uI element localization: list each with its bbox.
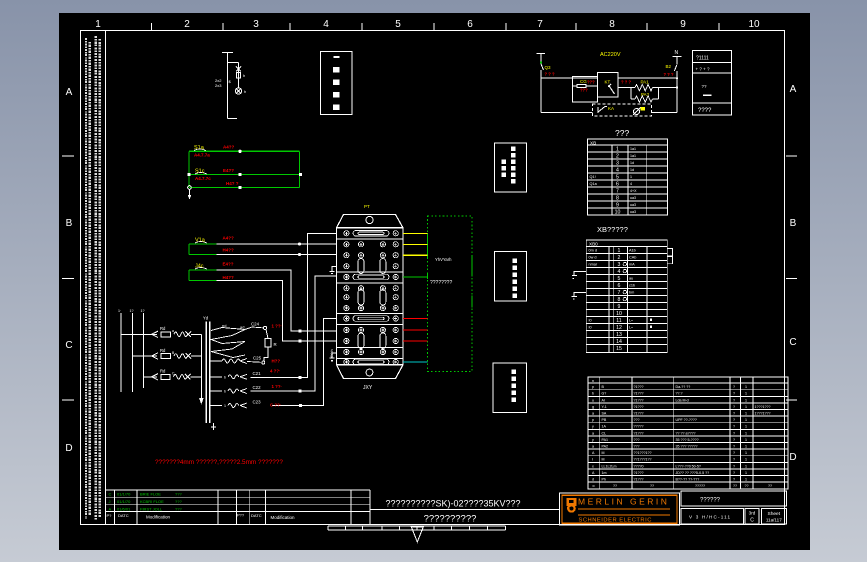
svg-text:??: ?? (650, 484, 654, 488)
svg-text:??????????: ?????????? (424, 514, 477, 525)
svg-text:1: 1 (745, 431, 747, 435)
svg-text:3: 3 (616, 161, 619, 167)
svg-text:CL: CL (602, 431, 607, 435)
bus labels (118, 309, 145, 313)
svg-text:?1???: ?1??? (634, 478, 644, 482)
row boundary ticks (62, 155, 74, 157)
ground symbol (574, 292, 586, 296)
svg-text:5: 5 (618, 276, 621, 282)
wire riser C23 to row (272, 319, 337, 406)
note box (primary diagram ref) (321, 52, 353, 115)
svg-text:H4? ?: H4? ? (226, 181, 239, 186)
terminal block JXY body (337, 228, 404, 365)
svg-text:Da-?? ??: Da-?? ?? (676, 385, 691, 389)
svg-text:1: 1 (745, 478, 747, 482)
svg-text:35 ??? 5-????: 35 ??? 5-???? (676, 438, 699, 442)
svg-text:∞: ∞ (592, 484, 595, 488)
ground symbol (574, 272, 586, 276)
right link (658, 78, 677, 112)
svg-text:???: ??? (175, 506, 182, 511)
svg-text:I: I (592, 458, 593, 462)
terminal arrow (188, 186, 192, 200)
svg-text:???: ??? (634, 445, 640, 449)
svg-text:BRIE FLOE: BRIE FLOE (140, 492, 161, 497)
svg-text:Rd: Rd (160, 369, 166, 374)
rev box (745, 509, 759, 524)
svg-text:H4??: H4?? (223, 275, 235, 280)
svg-text:DATC: DATC (251, 513, 262, 518)
green tick (540, 62, 542, 64)
svg-text:4 ??·: 4 ??· (270, 369, 281, 374)
svg-text:A4.7.7c: A4.7.7c (195, 176, 211, 181)
svg-text:1: 1 (745, 438, 747, 442)
code box (681, 509, 743, 524)
svg-text:?: ? (733, 445, 735, 449)
svg-text:C: C (789, 337, 796, 348)
svg-text:?1???: ?1??? (634, 412, 644, 416)
svg-text:ua3: ua3 (630, 210, 636, 214)
svg-text:15: 15 (616, 346, 622, 352)
svg-text:FIRST JOLL: FIRST JOLL (140, 506, 163, 511)
svg-text:PT: PT (364, 204, 370, 209)
svg-text:I0: I0 (589, 325, 592, 329)
svg-text:7: 7 (537, 19, 543, 30)
svg-text:01/1/70: 01/1/70 (117, 499, 131, 504)
primary winding zigzag (211, 328, 245, 358)
svg-text:6: 6 (618, 283, 621, 289)
svg-text:3: 3 (253, 19, 259, 30)
svg-text:1: 1 (745, 425, 747, 429)
svg-text:1·: 1· (118, 309, 121, 313)
bottom cap (337, 365, 404, 379)
junction nodes (188, 150, 303, 190)
svg-text:1d: 1d (630, 161, 634, 165)
svg-text:1A: 1A (602, 425, 607, 429)
svg-text:01/6/01: 01/6/01 (117, 506, 131, 511)
svg-text:L=: L= (629, 319, 633, 323)
divider lines (337, 239, 404, 359)
svg-text:??1???1??: ??1???1?? (634, 451, 652, 455)
svg-text:1: 1 (616, 147, 619, 153)
top cap (337, 215, 404, 228)
wire red 1 (403, 318, 428, 320)
tap C25 (210, 359, 265, 365)
svg-text:1: 1 (745, 471, 747, 475)
svg-text:C22: C22 (253, 385, 262, 390)
svg-text:g: g (592, 405, 594, 409)
svg-text:??: ?? (745, 484, 749, 488)
title box (370, 509, 560, 511)
svg-text:?: ? (733, 398, 735, 402)
svg-text:???: ??? (634, 438, 640, 442)
svg-text:2x3: 2x3 (215, 83, 222, 88)
svg-text:??.?: ??.? (676, 392, 683, 396)
svg-text:PA2: PA2 (602, 445, 609, 449)
svg-text:6: 6 (616, 182, 619, 188)
svg-text:???: ??? (634, 418, 640, 422)
svg-text:Yd: Yd (203, 316, 209, 321)
svg-text:x: x (592, 464, 594, 468)
wire (217, 254, 337, 256)
svg-text:??1???1??: ??1???1?? (634, 458, 652, 462)
svg-text:10: 10 (748, 19, 760, 30)
svg-text:au: au (629, 277, 633, 281)
switch Q3 (541, 64, 544, 113)
svg-text:N: N (675, 50, 679, 56)
svg-text:1: 1 (745, 412, 747, 416)
svg-text:u: u (592, 398, 594, 402)
svg-text:c1b: c1b (629, 284, 635, 288)
svg-text:KA: KA (608, 106, 614, 111)
wire yellow 2 (403, 243, 428, 245)
svg-text:YhVYarh: YhVYarh (435, 257, 452, 262)
wire J4c lower (217, 281, 337, 342)
svg-text:d: d (592, 478, 594, 482)
svg-text:ad: ad (240, 325, 244, 330)
note box (493, 363, 527, 412)
disconnect switch QS (236, 67, 241, 72)
sheet box (761, 509, 786, 524)
svg-text:?1???: ?1??? (634, 392, 644, 396)
svg-text:ua3: ua3 (630, 203, 636, 207)
yellow block (641, 107, 646, 111)
ground tap at connector left (330, 266, 337, 273)
wire red 2 (403, 329, 428, 331)
svg-text:a: a (592, 412, 594, 416)
svg-text:????: ???? (698, 108, 712, 114)
svg-text:? ? ?: ? ? ? (664, 72, 674, 77)
svg-text:Rd: Rd (160, 326, 166, 331)
svg-text:?: ? (733, 431, 735, 435)
svg-text:1 ??·: 1 ??· (272, 324, 283, 329)
svg-text:1: 1 (745, 445, 747, 449)
node J4c green link (189, 270, 217, 281)
wire cyan (403, 361, 428, 363)
svg-text:a: a (172, 329, 174, 333)
svg-text:E4??: E4?? (223, 262, 234, 267)
svg-text:?????: ????? (695, 484, 705, 488)
ruler tick marks (151, 23, 153, 31)
svg-text:?: ? (733, 405, 735, 409)
svg-text:9: 9 (616, 203, 619, 209)
svg-text:A4??: A4?? (223, 236, 235, 241)
svg-text:??: ?? (733, 484, 737, 488)
svg-text:1: 1 (745, 418, 747, 422)
notes text column (vertical chinese notes) (86, 36, 100, 520)
svg-text:nmar: nmar (589, 262, 598, 266)
svg-text:???????4mm ??????,?????2.5mm: ???????4mm ??????,?????2.5mm ??????? (155, 459, 283, 466)
value labels (215, 73, 246, 94)
svg-text:1: 1 (745, 458, 747, 462)
svg-text:9: 9 (618, 304, 621, 310)
svg-text:P?: P? (107, 513, 113, 518)
svg-text:???: ??? (587, 80, 595, 85)
svg-text:PB: PB (602, 418, 607, 422)
note box (494, 143, 526, 192)
wire yellow 1 (403, 233, 428, 235)
svg-text:??: ?? (613, 484, 617, 488)
svg-text:CAb: CAb (629, 256, 636, 260)
svg-text:1: 1 (745, 464, 747, 468)
meter symbol (633, 108, 641, 116)
svg-text:01/1/70: 01/1/70 (117, 492, 131, 497)
svg-text:4: 4 (616, 168, 619, 174)
fuse branch C (143, 374, 201, 380)
busbar W1 (222, 53, 237, 119)
svg-text:4Ych: 4Ych (330, 349, 334, 358)
svg-text:1: 1 (745, 385, 747, 389)
svg-text:XB?????: XB????? (597, 225, 628, 234)
svg-text:C21: C21 (253, 371, 262, 376)
svg-text:?: ? (733, 438, 735, 442)
wire J4c upper (217, 270, 337, 331)
svg-text:1: 1 (745, 392, 747, 396)
svg-text:13: 13 (616, 332, 622, 338)
terminal screws (344, 231, 399, 365)
svg-text:0m d: 0m d (589, 248, 597, 252)
svg-text:?: ? (733, 425, 735, 429)
svg-text:???: ??? (175, 492, 182, 497)
svg-text:5: 5 (395, 19, 401, 30)
transformer core Yd (206, 321, 210, 423)
svg-text:Sheet: Sheet (768, 511, 781, 517)
svg-text:b: b (224, 376, 226, 380)
svg-text:12: 12 (616, 325, 622, 331)
svg-text:1: 1 (745, 398, 747, 402)
svg-text:mA: mA (629, 263, 635, 267)
wire yellow 3 (403, 254, 428, 256)
svg-text:JD?? ?? ???5-0.5 ??: JD?? ?? ???5-0.5 ?? (676, 471, 710, 475)
svg-text:0w d: 0w d (589, 255, 597, 259)
svg-text:Rd: Rd (160, 348, 166, 353)
ground tap 2 at connector left (330, 353, 337, 363)
wire riser C21 to row1 (251, 234, 337, 378)
collector wire with arrow (199, 334, 204, 404)
dashed relay box KA (593, 104, 652, 116)
resistor PA1 (618, 84, 658, 90)
device info table (692, 51, 731, 115)
tap C22 (210, 389, 247, 394)
wire V1a to terminal (217, 243, 337, 245)
svg-text:bm: bm (629, 291, 634, 295)
tap C23 (210, 403, 247, 408)
svg-text:C25: C25 (253, 356, 262, 361)
svg-text:A: A (66, 87, 73, 98)
svg-text:14: 14 (616, 339, 622, 345)
svg-text:C: C (750, 518, 754, 524)
svg-text:Lda M-d: Lda M-d (676, 398, 689, 402)
svg-text:A: A (790, 84, 797, 95)
wire branch (228, 63, 239, 89)
svg-text:D: D (65, 443, 72, 454)
svg-text:Modification: Modification (271, 515, 296, 520)
svg-text:8: 8 (618, 297, 621, 303)
svg-text:G?: G? (602, 392, 607, 396)
svg-text:1: 1 (95, 19, 101, 30)
svg-text:nd: nd (222, 323, 226, 328)
svg-text:h: h (244, 89, 246, 94)
svg-text:V 3 H/HC-111: V 3 H/HC-111 (689, 515, 731, 520)
svg-text:Q3: Q3 (545, 65, 552, 70)
svg-text:?: ? (733, 464, 735, 468)
KA contact (598, 107, 607, 114)
center V mark (411, 527, 423, 542)
svg-text:1a1: 1a1 (630, 154, 636, 158)
svg-text:?: ? (733, 478, 735, 482)
junction dots (676, 77, 678, 79)
drawing number box (681, 491, 786, 506)
junction dots (298, 243, 301, 246)
svg-text:11a/117: 11a/117 (766, 518, 782, 523)
svg-text:10: 10 (615, 210, 621, 216)
svg-text:SCHNEIDER ELECTRIC: SCHNEIDER ELECTRIC (579, 518, 652, 524)
svg-text:Q1a: Q1a (590, 182, 598, 186)
svg-text:H??: H?? (272, 359, 281, 364)
svg-text:XB: XB (590, 140, 596, 145)
svg-text:?: ? (733, 385, 735, 389)
svg-text:4: 4 (323, 19, 329, 30)
svg-text:7: 7 (618, 290, 621, 296)
svg-text:7: 7 (616, 189, 619, 195)
svg-text:??????????SK)-02????35KV???: ??????????SK)-02????35KV??? (385, 499, 520, 509)
svg-text:? ? ?: ? ? ? (545, 72, 555, 77)
svg-text:4: 4 (630, 182, 632, 186)
svg-text:JXY: JXY (363, 385, 373, 391)
svg-text:A1b: A1b (629, 249, 636, 253)
svg-text:?: ? (733, 412, 735, 416)
svg-text:y: y (592, 438, 594, 442)
tap C24 (245, 326, 267, 329)
svg-text:KT: KT (605, 80, 611, 85)
resistor PA2 (631, 88, 658, 103)
svg-text:A4??: A4?? (223, 145, 235, 150)
svg-text:6: 6 (467, 19, 473, 30)
svg-text:1: 1 (630, 175, 632, 179)
svg-text:35 ??? ?????: 35 ??? ????? (676, 445, 698, 449)
svg-text:C23: C23 (253, 400, 262, 405)
resistor R (264, 330, 271, 361)
svg-text:?? ?? a????: ?? ?? a???? (676, 431, 696, 435)
svg-text:L=: L= (629, 326, 633, 330)
svg-text:?1???: ?1??? (634, 405, 644, 409)
notes column divider (105, 31, 107, 525)
svg-text:B: B (66, 218, 73, 229)
svg-text:????0: ????0 (634, 464, 644, 468)
svg-text:XB0: XB0 (589, 241, 598, 246)
core bottom stub (211, 423, 216, 430)
svg-text:?: ? (733, 451, 735, 455)
fold mark strip (328, 525, 505, 527)
svg-text:8: 8 (609, 19, 615, 30)
svg-text:b: b (592, 392, 594, 396)
svg-text:DATC: DATC (118, 513, 129, 518)
svg-text:1a1: 1a1 (630, 147, 636, 151)
svg-text:?1???: ?1??? (634, 471, 644, 475)
svg-text:R: R (274, 342, 277, 347)
svg-text:1?: 1? (141, 309, 145, 313)
svg-text:Y-1: Y-1 (602, 405, 607, 409)
svg-text:I0: I0 (589, 318, 592, 322)
relay module (dashed outline) (428, 216, 473, 372)
svg-text:p: p (592, 418, 594, 422)
svg-text:1: 1 (224, 404, 226, 408)
svg-text:?1???: ?1??? (634, 398, 644, 402)
svg-text:8: 8 (616, 196, 619, 202)
svg-text:D: D (789, 452, 796, 463)
svg-text:1???1???: 1???1??? (755, 405, 771, 409)
CG loop (573, 76, 598, 102)
svg-text:2: 2 (618, 255, 621, 261)
svg-text:10: 10 (616, 311, 622, 317)
svg-text:???: ??? (580, 88, 588, 93)
node S1 green links (189, 151, 301, 187)
svg-text:p: p (592, 385, 594, 389)
svg-text:C24: C24 (251, 322, 260, 327)
svg-text:2: 2 (184, 19, 190, 30)
svg-text:?????: ????? (634, 425, 644, 429)
node V1a green link (189, 244, 217, 255)
wire red 3 (403, 340, 428, 342)
svg-text:+ ? + ?: + ? + ? (696, 67, 711, 72)
svg-text:?: ? (733, 392, 735, 396)
svg-text:J: J (109, 499, 111, 504)
revision table (106, 490, 370, 525)
svg-text:? ? ?: ? ? ? (621, 80, 631, 85)
terminal N (673, 57, 682, 79)
svg-text:3: 3 (618, 262, 621, 268)
svg-text:4: 4 (618, 269, 621, 275)
svg-text:h: h (243, 73, 245, 78)
svg-text:?: ? (733, 458, 735, 462)
svg-text:3rd: 3rd (749, 511, 756, 516)
svg-text:1?: 1? (130, 309, 134, 313)
svg-text:??: ?? (702, 84, 708, 89)
svg-text:y: y (592, 425, 594, 429)
svg-text:???: ??? (615, 128, 629, 138)
svg-text:ua3: ua3 (630, 196, 636, 200)
svg-text:Ph: Ph (602, 478, 606, 482)
Merlin Gerin logo block (560, 493, 680, 525)
svg-text:AI: AI (602, 398, 605, 402)
svg-text:B: B (790, 218, 797, 229)
svg-text:B??-?? ??-???: B??-?? ??-??? (676, 478, 700, 482)
svg-text:5: 5 (616, 175, 619, 181)
svg-text:A4.7.7a: A4.7.7a (194, 153, 210, 158)
svg-text:B2: B2 (666, 64, 672, 69)
wire riser C22 to row (251, 276, 337, 391)
bus phase lines L1 L2 L3 (121, 313, 143, 392)
svg-text:a: a (592, 431, 594, 435)
svg-text:PA1: PA1 (641, 80, 650, 85)
svg-text:?1???: ?1??? (634, 385, 644, 389)
svg-text:E4??: E4?? (223, 168, 234, 173)
svg-text:???: ??? (175, 499, 182, 504)
svg-text:PA1: PA1 (602, 438, 609, 442)
svg-text:MERLIN GERIN: MERLIN GERIN (578, 496, 669, 506)
svg-text:1 ??·: 1 ??· (272, 384, 283, 389)
svg-text:1m: 1m (602, 471, 607, 475)
svg-text:L???-??0 50-5?: L???-??0 50-5? (676, 464, 701, 468)
svg-text:PA?: PA? (641, 92, 650, 97)
border frame (81, 31, 785, 525)
top rail (541, 77, 677, 79)
svg-text:b: b (224, 390, 226, 394)
svg-text:1: 1 (618, 248, 621, 254)
svg-text:1???1???: 1???1??? (755, 412, 771, 416)
svg-text:n: n (592, 379, 594, 383)
svg-text:11: 11 (616, 318, 621, 324)
svg-text:LL1L2Lm: LL1L2Lm (602, 464, 617, 468)
